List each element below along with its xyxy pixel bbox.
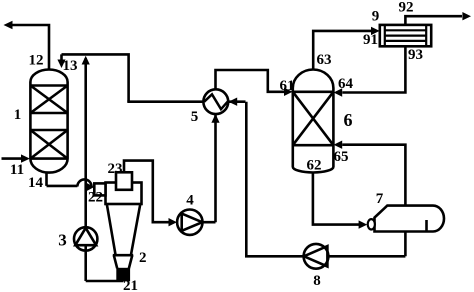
arrow stream 92 out [462,12,471,20]
svg-text:1: 1 [14,107,22,123]
arrow into vessel 7 nozzle [359,220,368,228]
cyclone 2 cone [107,204,141,255]
arrow stream 22 into cyclone [87,183,95,191]
svg-text:3: 3 [58,231,67,250]
arrow stream 12 [4,21,13,29]
svg-text:14: 14 [28,175,44,191]
svg-text:65: 65 [334,149,349,165]
wire vessel 7 vapor to stream 65 [342,145,405,206]
vessel 7 [375,206,445,232]
wire column 6 bottoms to vessel 7 [313,172,359,224]
svg-text:13: 13 [63,58,78,74]
pump 4 [177,210,202,235]
wire stream 13 header into column 1 [62,54,129,101]
pump 8 [304,244,329,269]
svg-text:62: 62 [307,158,322,174]
heat exchanger 9 tube sheets [385,25,426,46]
arrow pump 3 riser up [82,56,90,65]
arrow up into HX5 bottom [211,114,219,123]
wire pump 4 discharge through HX5 [203,70,285,222]
arrow stream 91 into HX9 [371,27,380,35]
wire stream 92 [405,16,462,25]
wire stream 23 to pump 4 [124,161,170,223]
wire stream 11 feed [2,157,23,160]
svg-text:21: 21 [123,278,138,292]
svg-text:4: 4 [186,193,194,209]
vessel 7 weir [425,220,428,232]
cyclone 2 discharge box 21 [117,268,130,281]
column 6 vessel body [293,70,334,173]
arrow into pump 4 [169,218,177,226]
heat exchanger 9 shell [380,25,431,46]
svg-text:92: 92 [399,0,414,16]
heat exchanger 9 tubes [385,30,426,41]
vessel 7 nozzle [368,219,375,229]
svg-text:12: 12 [29,53,44,69]
svg-text:93: 93 [408,47,423,63]
svg-text:6: 6 [344,110,353,130]
cyclone 2 inlet box 22 [94,183,105,195]
column 6 packing X [293,92,334,145]
column 1 packing section X1 [30,86,67,114]
wire column 1 bottoms to cyclone [47,172,78,186]
arrow stream 13 into column 1 [57,60,65,69]
pump 3 [74,227,97,250]
wire pump 3 riser [86,58,124,281]
wire stream 93 to 64 [342,46,405,92]
wire hop over pump3 riser [77,179,91,186]
heat exchanger 5 [203,89,228,114]
svg-text:11: 11 [10,162,24,178]
svg-text:91: 91 [363,32,378,48]
cyclone 2 bottom funnel [114,255,133,268]
svg-text:7: 7 [376,191,384,207]
arrow stream 64 into column 6 [334,88,343,96]
svg-text:23: 23 [108,161,123,177]
svg-text:5: 5 [191,109,199,125]
column 1 packing section X2 [30,130,67,159]
svg-text:22: 22 [88,190,103,206]
cyclone 2 top barrel [106,183,142,205]
cyclone 2 flange [113,254,133,257]
svg-text:8: 8 [313,273,321,289]
svg-text:64: 64 [338,76,354,92]
cyclone 2 vortex box 23 [116,172,132,190]
svg-text:9: 9 [372,9,380,25]
svg-text:61: 61 [280,78,295,94]
wire stream 63 to 91 [313,31,371,70]
arrow stream 65 into column 6 [334,141,343,149]
arrow stream 61 into column 6 [284,88,293,96]
svg-text:2: 2 [139,250,147,266]
arrow stream 11 into column 1 [21,154,30,162]
wire stream 12 top outlet of column 1 [10,25,49,70]
arrow left into HX5 right [228,98,237,106]
wire pump 8 suction and discharge [246,102,405,257]
svg-text:63: 63 [317,52,332,68]
column 1 vessel body [30,70,67,173]
wire HX5 left horizontal [127,100,245,103]
